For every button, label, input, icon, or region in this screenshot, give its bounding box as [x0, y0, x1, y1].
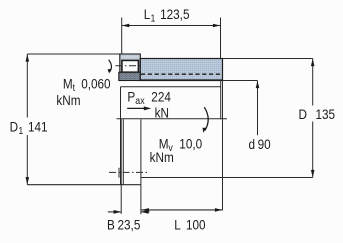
baseline left (D1 bottom reference): [27, 184, 141, 186]
sleeve hidden taper line (dashed): [141, 73, 222, 75]
dim d dimension line: [257, 81, 259, 136]
stub axis tick: [118, 168, 120, 178]
svg-text:M: M: [63, 76, 73, 92]
dim L1 extension line right: [220, 18, 222, 59]
body right inner edge: [220, 81, 222, 120]
dim L1 dimension line: [122, 25, 221, 27]
dim D dimension line: [312, 59, 314, 178]
stub vertical right / dim B extension: [140, 119, 142, 214]
nut (left collar) outer block: [120, 54, 141, 72]
nut flange hatch band: [119, 72, 141, 80]
dim D1 reference line (top): [27, 53, 120, 55]
svg-text:B: B: [107, 216, 115, 232]
torque arrow Mt arc: [109, 60, 112, 72]
dim D arrow down: [311, 170, 315, 177]
svg-text:135: 135: [316, 106, 336, 122]
svg-text:10,0: 10,0: [179, 136, 202, 152]
nut inner white pocket: [122, 60, 138, 72]
label d 90: [249, 136, 271, 152]
body left edge: [120, 87, 122, 185]
dim d arrow up: [256, 81, 260, 88]
svg-text:D: D: [299, 106, 307, 122]
dim D reference line (top right): [223, 58, 313, 60]
svg-text:1: 1: [151, 13, 156, 25]
svg-text:141: 141: [28, 119, 48, 135]
svg-text:kN: kN: [155, 104, 169, 120]
label Mv 10,0: [150, 136, 203, 166]
svg-text:d: d: [249, 136, 256, 152]
stub vertical left: [120, 119, 122, 214]
svg-text:1: 1: [18, 125, 23, 137]
label D1 141: [10, 119, 48, 138]
dim d reference line (right): [223, 80, 258, 82]
label B 23,5: [107, 216, 206, 232]
svg-text:P: P: [127, 89, 135, 105]
dim B arrow left (outside): [108, 211, 121, 213]
svg-text:D: D: [10, 119, 18, 135]
dim L1 arrow left: [122, 24, 129, 28]
svg-text:L: L: [174, 216, 181, 232]
dim L1 extension line left: [121, 18, 123, 54]
label D 135: [299, 106, 336, 122]
svg-text:90: 90: [258, 136, 271, 152]
baseline right (D bottom reference): [141, 177, 313, 179]
dim L1 arrow right: [213, 24, 220, 28]
label Pax 224: [127, 89, 170, 121]
stub axis center line: [109, 171, 147, 173]
label D1 141 backing: [6, 118, 47, 136]
dim L arrow left: [141, 208, 149, 212]
svg-text:ax: ax: [135, 95, 144, 107]
mid joint line: [117, 118, 228, 120]
label D 135 backing: [298, 106, 336, 122]
torque arrow Mv arrowhead: [203, 128, 207, 133]
svg-text:0,060: 0,060: [81, 76, 110, 92]
torque arrow Mt arrowhead: [108, 69, 111, 74]
label L1 123,5: [144, 6, 190, 25]
svg-text:kNm: kNm: [150, 149, 174, 165]
svg-text:23,5: 23,5: [118, 216, 141, 232]
body right outer edge / dim L extension: [222, 81, 224, 211]
svg-text:100: 100: [186, 216, 206, 232]
dim D1 dimension line: [26, 54, 28, 185]
body top edge: [121, 86, 221, 88]
stub vertical inner: [122, 119, 124, 184]
dim L arrow right: [215, 208, 222, 212]
svg-text:224: 224: [151, 89, 171, 105]
sleeve cross-section bar: [140, 59, 222, 81]
label Mt 0,060: [56, 76, 110, 109]
dim D1 arrow up: [26, 54, 30, 61]
svg-text:123,5: 123,5: [160, 6, 189, 22]
force arrow Pax: [127, 107, 146, 109]
dim L dimension line: [141, 209, 222, 211]
nut axis center line: [116, 65, 145, 67]
dim D arrow up: [311, 59, 315, 66]
svg-text:kNm: kNm: [56, 92, 80, 108]
dim B arrow right (outside): [141, 211, 149, 213]
torque arrow Mv arc: [204, 107, 208, 130]
svg-text:L: L: [144, 6, 151, 22]
dim D1 arrow down: [26, 177, 30, 184]
sleeve bottom border emphasis: [140, 79, 222, 81]
